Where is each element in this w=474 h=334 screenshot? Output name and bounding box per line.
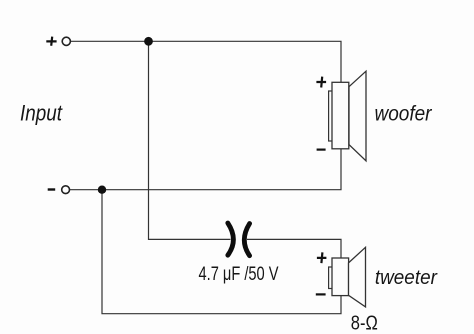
node junction on minus rail (98, 186, 106, 194)
svg-text:woofer: woofer (375, 101, 433, 126)
tweeter driver rectangle (332, 258, 349, 296)
node junction on top rail (144, 37, 153, 46)
wire from top junction down to capacitor left plate (149, 41, 231, 239)
label - (input) (48, 188, 56, 190)
terminal + open circle (62, 37, 70, 45)
woofer cone (349, 71, 366, 161)
tweeter magnet bracket (329, 267, 333, 289)
wire top rail from + terminal to woofer (71, 41, 341, 82)
label + (woofer) (316, 77, 326, 88)
wire from minus junction down and across bottom to tweeter - (102, 190, 341, 314)
label - (tweeter) (316, 293, 326, 295)
capacitor C1 left plate (228, 223, 234, 255)
tweeter cone (349, 247, 366, 307)
capacitor C1 right plate (244, 224, 249, 256)
woofer driver rectangle (332, 82, 349, 149)
woofer magnet bracket (329, 91, 333, 141)
svg-text:tweeter: tweeter (375, 266, 438, 289)
terminal - open circle (62, 186, 70, 194)
label + (tweeter) (317, 252, 327, 263)
label - (woofer) (317, 149, 326, 151)
wire from capacitor right plate to tweeter + (247, 239, 341, 258)
svg-text:Input: Input (20, 100, 63, 125)
svg-text:4.7 μF /50 V: 4.7 μF /50 V (199, 264, 279, 285)
wire minus rail from - terminal to woofer bottom (70, 149, 341, 190)
svg-text:8-Ω: 8-Ω (351, 313, 378, 334)
label + (input) (46, 37, 56, 46)
